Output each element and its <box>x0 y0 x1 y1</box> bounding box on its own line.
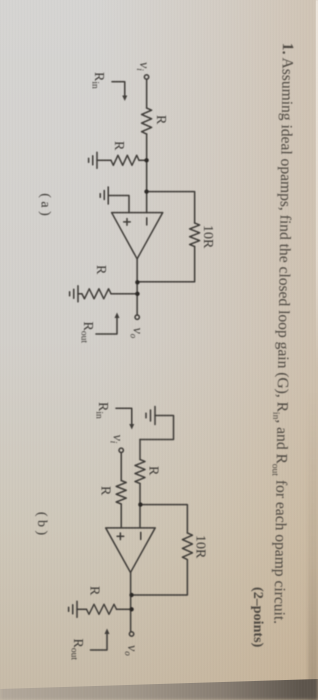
svg-text:Rout: Rout <box>79 322 96 344</box>
svg-text:vo: vo <box>129 328 145 339</box>
svg-text:Rin: Rin <box>90 72 107 89</box>
svg-text:Rin: Rin <box>94 402 111 419</box>
svg-text:10R: 10R <box>200 225 215 249</box>
svg-text:R: R <box>153 115 168 125</box>
svg-text:R: R <box>93 265 108 275</box>
svg-text:vi: vi <box>109 435 125 444</box>
svg-text:vi: vi <box>135 62 151 71</box>
svg-text:vo: vo <box>123 645 139 656</box>
svg-text:R: R <box>87 586 102 596</box>
svg-text:10R: 10R <box>193 535 208 559</box>
svg-text:Rout: Rout <box>69 639 86 661</box>
svg-text:R: R <box>146 466 161 476</box>
svg-text:R: R <box>111 141 126 151</box>
svg-text:( b ): ( b ) <box>34 512 49 536</box>
svg-text:( a ): ( a ) <box>38 193 53 216</box>
svg-text:R: R <box>98 486 113 496</box>
